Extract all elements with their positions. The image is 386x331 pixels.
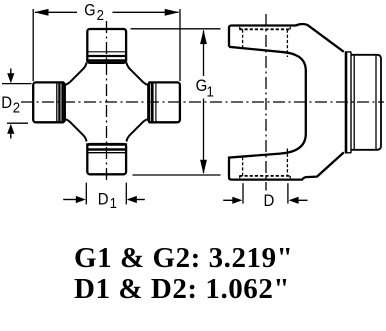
dimension D extension line right xyxy=(287,183,289,203)
G2 arrowhead left xyxy=(34,9,49,16)
yoke bore hidden line left (top ear) xyxy=(242,30,244,49)
dimension G1 line bottom segment xyxy=(203,99,205,174)
svg-text:1: 1 xyxy=(110,194,117,211)
D1 arrow left-pointing (right side) xyxy=(127,196,145,203)
svg-text:2: 2 xyxy=(97,6,104,23)
dimension G1 line top segment xyxy=(203,31,205,77)
D1 arrow right-pointing (left side) xyxy=(63,196,86,203)
dimension D extension line left xyxy=(242,183,244,203)
cross body flare bottom-right xyxy=(126,119,149,142)
dimension D1 extension line left xyxy=(85,183,87,205)
dimension G2 line left segment xyxy=(35,11,77,13)
dimension D2 extension line bottom xyxy=(7,122,28,124)
svg-text:G: G xyxy=(196,77,208,95)
yoke bore hidden line right (top ear) xyxy=(286,30,288,58)
bearing cup bottom xyxy=(86,144,127,174)
yoke outer outline lower/inner xyxy=(229,47,344,180)
svg-text:G1 & G2: 3.219": G1 & G2: 3.219" xyxy=(74,242,293,274)
dimension G1 extension line bottom xyxy=(133,174,221,176)
cross body flare bottom-left xyxy=(64,119,87,142)
yoke bore hidden stubs bottom xyxy=(240,176,291,179)
G1 arrowhead up xyxy=(200,30,207,44)
D arrow left-pointing xyxy=(289,197,308,204)
svg-text:G: G xyxy=(84,2,95,20)
yoke bore hidden line left (bottom ear) xyxy=(242,157,244,176)
dimension D2 extension line top xyxy=(2,83,32,85)
dimension G1 extension line top xyxy=(131,28,221,30)
yoke flange band xyxy=(345,52,351,153)
svg-text:D: D xyxy=(98,191,109,209)
bearing cup right xyxy=(148,81,180,123)
bearing cup top xyxy=(86,29,127,63)
u-joint cross centerline vertical xyxy=(106,21,108,182)
dimension G2 extension line left xyxy=(32,9,34,81)
D2 arrow up (below) xyxy=(7,124,14,139)
D arrow right-pointing xyxy=(223,197,242,204)
G2 arrowhead right xyxy=(165,9,180,16)
D2 arrow down (above) xyxy=(7,69,14,84)
yoke bore hidden top horizontal xyxy=(239,28,290,30)
yoke outer outline xyxy=(229,24,344,52)
cross body flare top-left xyxy=(64,63,87,86)
G1 arrowhead down xyxy=(200,160,207,175)
yoke bore hidden stubs top xyxy=(240,26,291,29)
u-joint cross centerline horizontal xyxy=(21,101,384,103)
bearing cup left xyxy=(33,81,65,123)
yoke bore hidden bottom horizontal xyxy=(239,175,290,177)
label G2 xyxy=(1,2,274,212)
svg-text:D: D xyxy=(264,192,275,210)
dimension D1 extension line right xyxy=(125,183,127,205)
cross body flare top-right xyxy=(126,63,149,86)
svg-text:1: 1 xyxy=(207,83,214,100)
yoke bore hidden line right (bottom ear) xyxy=(286,149,288,176)
dimension G2 extension line right xyxy=(179,9,181,81)
dimension G2 line right segment xyxy=(113,11,179,13)
svg-text:D1 & D2: 1.062": D1 & D2: 1.062" xyxy=(74,273,290,305)
yoke vertical centerline xyxy=(265,14,267,191)
svg-text:2: 2 xyxy=(13,98,20,115)
yoke cylinder (slip hub) xyxy=(351,55,381,150)
svg-text:D: D xyxy=(1,94,12,112)
